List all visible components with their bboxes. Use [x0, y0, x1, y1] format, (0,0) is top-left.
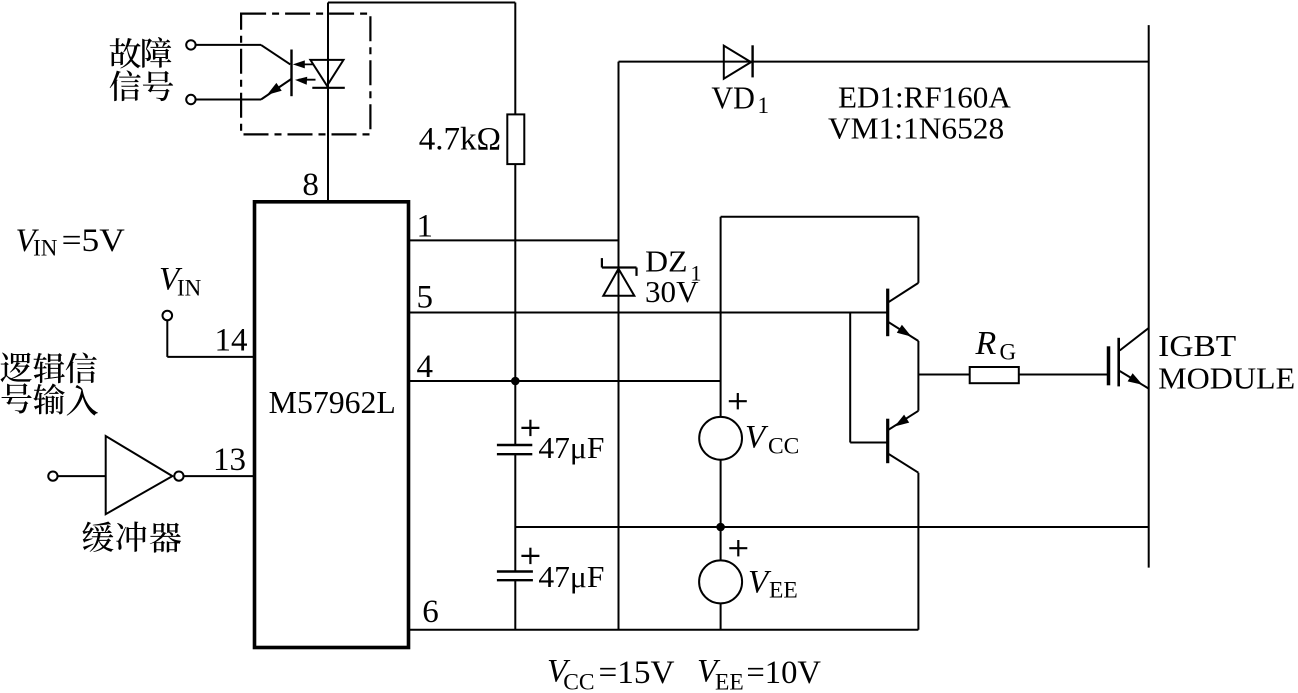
svg-text:R: R: [975, 325, 997, 362]
svg-text:8: 8: [302, 167, 319, 203]
svg-text:EE: EE: [769, 578, 798, 604]
svg-text:ED1:RF160A: ED1:RF160A: [838, 80, 1011, 115]
svg-text:47μF: 47μF: [538, 430, 604, 465]
svg-text:1: 1: [758, 93, 770, 118]
svg-text:EE: EE: [715, 670, 744, 693]
svg-text:4: 4: [417, 349, 434, 385]
svg-text:M57962L: M57962L: [269, 385, 396, 420]
svg-text:CC: CC: [768, 434, 799, 460]
svg-text:MODULE: MODULE: [1158, 361, 1295, 396]
svg-text:IGBT: IGBT: [1158, 328, 1236, 363]
svg-text:1: 1: [417, 208, 434, 244]
svg-text:G: G: [1000, 340, 1017, 365]
svg-text:13: 13: [213, 442, 246, 478]
svg-text:30V: 30V: [645, 274, 699, 309]
svg-text:=15V: =15V: [599, 655, 675, 691]
svg-text:6: 6: [422, 594, 439, 630]
svg-text:DZ: DZ: [645, 243, 687, 278]
svg-text:VM1:1N6528: VM1:1N6528: [828, 110, 1004, 145]
svg-text:IN: IN: [177, 276, 202, 301]
svg-text:IN: IN: [33, 236, 58, 261]
svg-text:=5V: =5V: [62, 223, 125, 259]
svg-text:47μF: 47μF: [538, 559, 604, 594]
svg-text:VD: VD: [711, 80, 755, 116]
svg-text:14: 14: [215, 322, 248, 358]
svg-text:5: 5: [417, 280, 434, 316]
svg-text:=10V: =10V: [746, 655, 821, 691]
svg-text:4.7kΩ: 4.7kΩ: [419, 122, 501, 158]
svg-text:CC: CC: [563, 670, 594, 693]
